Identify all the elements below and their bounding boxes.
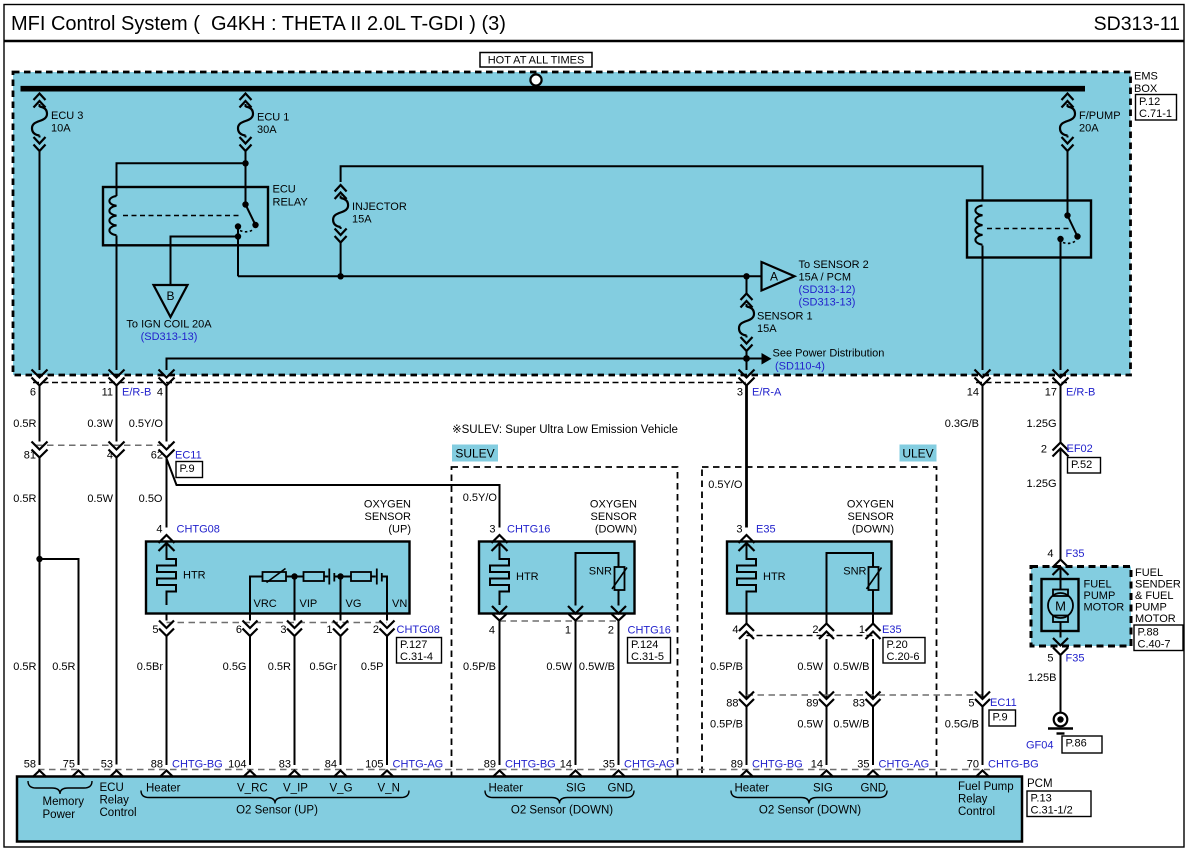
- injector feed rail: [341, 166, 983, 200]
- heater HTR UP: [157, 543, 206, 605]
- svg-text:M: M: [1055, 599, 1066, 614]
- svg-text:OXYGEN: OXYGEN: [364, 499, 411, 511]
- PCM row dashed line: [38, 769, 990, 771]
- V_N label: [378, 783, 400, 795]
- wire 0.5W ULEV lower: [797, 707, 826, 766]
- svg-text:1: 1: [565, 625, 571, 637]
- svg-text:Fuel Pump: Fuel Pump: [958, 781, 1014, 793]
- SIG label ULEV: [813, 783, 833, 795]
- connector CHTG16 pin 4: [489, 606, 507, 637]
- svg-text:14: 14: [967, 387, 979, 399]
- EF02 ref box P.52: [1068, 458, 1101, 474]
- svg-text:4: 4: [1047, 548, 1053, 560]
- fuse INJECTOR 15A: [333, 185, 407, 243]
- PCM ref box P.13: [1027, 791, 1091, 817]
- PCM pin 35: [857, 759, 929, 778]
- svg-text:14: 14: [560, 759, 572, 771]
- svg-text:VIP: VIP: [300, 598, 318, 610]
- svg-text:To IGN COIL 20A: To IGN COIL 20A: [126, 319, 212, 331]
- wire 0.5W/B SULEV: [579, 621, 619, 766]
- E/R-A label: [752, 387, 782, 399]
- wire fuel relay coil to pin 14: [982, 246, 984, 371]
- HOT AT ALL TIMES label: [480, 53, 592, 68]
- svg-text:P.9: P.9: [180, 463, 195, 475]
- svg-text:5: 5: [152, 624, 158, 636]
- svg-text:0.5Gr: 0.5Gr: [309, 661, 337, 673]
- svg-text:17: 17: [1045, 387, 1057, 399]
- GND label ULEV: [861, 783, 887, 795]
- junction memory power: [36, 556, 42, 562]
- ECU relay switch: [235, 201, 259, 239]
- PCM pin 89: [731, 759, 803, 778]
- wire 1.25B: [1028, 655, 1061, 713]
- svg-text:OXYGEN: OXYGEN: [590, 499, 637, 511]
- svg-text:P.12: P.12: [1139, 96, 1160, 108]
- svg-text:V_RC: V_RC: [237, 783, 268, 795]
- svg-text:81: 81: [24, 450, 36, 462]
- svg-text:C.20-6: C.20-6: [887, 651, 920, 663]
- wire junction to relay coil: [117, 163, 246, 196]
- svg-text:P.13: P.13: [1031, 793, 1052, 805]
- svg-text:3: 3: [489, 524, 495, 536]
- svg-text:30A: 30A: [257, 124, 277, 136]
- wire 0.5P/B ULEV lower: [710, 707, 747, 766]
- To SENSOR 2 text: [799, 259, 869, 284]
- svg-text:SENSOR: SENSOR: [365, 511, 412, 523]
- svg-text:35: 35: [857, 759, 869, 771]
- svg-text:0.5Br: 0.5Br: [137, 661, 164, 673]
- svg-text:0.5P/B: 0.5P/B: [463, 661, 496, 673]
- connector E35 pin 1: [859, 624, 881, 640]
- fuel relay switch: [1057, 212, 1080, 243]
- svg-text:SENSOR 1: SENSOR 1: [757, 311, 813, 323]
- wire pin6 inside EMS: [39, 151, 41, 370]
- svg-text:0.3G/B: 0.3G/B: [945, 418, 979, 430]
- GND label SULEV: [608, 783, 634, 795]
- O2 Sensor DOWN ULEV label: [759, 805, 861, 817]
- svg-text:Memory: Memory: [43, 796, 85, 808]
- EC11 row2 pin 5: [968, 692, 990, 710]
- wire motor out: [1060, 622, 1062, 638]
- svg-text:C.71-1: C.71-1: [1139, 108, 1172, 120]
- SNR element SULEV: [576, 553, 628, 606]
- EC11 row dashed line: [36, 444, 170, 446]
- junction ECU1/relay: [242, 160, 248, 166]
- connector E35 pin 2: [812, 624, 834, 640]
- labels VRC VIP VG VN: [254, 598, 408, 610]
- fuse ECU 1 30A: [238, 94, 289, 152]
- svg-text:C.31-1/2: C.31-1/2: [1031, 805, 1073, 817]
- V_IP label: [283, 783, 308, 795]
- svg-text:0.5W: 0.5W: [87, 493, 113, 505]
- wire 0.3W pin11: [87, 386, 116, 442]
- svg-text:INJECTOR: INJECTOR: [352, 201, 407, 213]
- connector A triangle: [762, 262, 795, 291]
- EC11 row2 dashed line: [747, 694, 983, 696]
- svg-text:(DOWN): (DOWN): [852, 524, 894, 536]
- wire 0.5R pin6: [13, 386, 39, 442]
- wire fpump fuse to relay: [1067, 151, 1069, 216]
- svg-text:PUMP: PUMP: [1135, 602, 1167, 614]
- svg-text:ECU: ECU: [100, 782, 124, 794]
- connector CHTG08 pin 2: [373, 614, 395, 637]
- svg-text:88: 88: [726, 698, 738, 710]
- svg-text:BOX: BOX: [1134, 83, 1158, 95]
- wire ULEV sig out: [826, 614, 828, 624]
- heater HTR ULEV: [737, 543, 786, 605]
- variable resistor VRC: [263, 569, 287, 583]
- wire into motor: [1060, 567, 1062, 590]
- svg-text:V_IP: V_IP: [283, 783, 308, 795]
- wire injector to rail: [340, 243, 342, 277]
- svg-text:0.5W: 0.5W: [546, 661, 572, 673]
- svg-text:Control: Control: [100, 807, 137, 819]
- svg-text:4: 4: [157, 387, 163, 399]
- branch 0.5Y/O to SULEV sensor: [167, 459, 500, 528]
- wire 0.5Br: [137, 636, 167, 765]
- svg-text:2: 2: [373, 624, 379, 636]
- svg-text:84: 84: [325, 759, 337, 771]
- svg-text:Heater: Heater: [146, 783, 181, 795]
- EMS exit connector dashes left: [33, 382, 746, 384]
- oxygen sensor SULEV box: [479, 542, 635, 614]
- PCM pin 53: [101, 759, 124, 778]
- svg-text:CHTG16: CHTG16: [628, 625, 671, 637]
- svg-text:P.127: P.127: [400, 639, 427, 651]
- svg-text:GND: GND: [608, 783, 634, 795]
- svg-text:0.5Y/O: 0.5Y/O: [463, 492, 498, 504]
- wire E/R-A heavy: [745, 386, 748, 528]
- PCM pin 58: [24, 759, 47, 778]
- svg-text:1.25G: 1.25G: [1027, 478, 1057, 490]
- svg-text:HTR: HTR: [763, 571, 786, 583]
- svg-text:SNR: SNR: [843, 566, 866, 578]
- svg-text:2: 2: [1041, 444, 1047, 456]
- svg-text:0.5Y/O: 0.5Y/O: [708, 479, 743, 491]
- PCM pin 83: [279, 759, 302, 778]
- CHTG16 ref box: [628, 638, 671, 664]
- svg-text:Control: Control: [958, 806, 995, 818]
- svg-text:SENSOR: SENSOR: [848, 511, 895, 523]
- wire 0.5G/B: [945, 707, 983, 766]
- svg-text:0.5G/B: 0.5G/B: [945, 719, 979, 731]
- ULEV tag: [900, 445, 937, 462]
- svg-text:104: 104: [228, 759, 246, 771]
- svg-text:(DOWN): (DOWN): [595, 524, 637, 536]
- svg-text:SIG: SIG: [566, 783, 586, 795]
- wire 0.5R pin58 label: [13, 661, 36, 673]
- PCM pin 14: [560, 759, 583, 778]
- svg-text:83: 83: [853, 698, 865, 710]
- svg-text:C.31-5: C.31-5: [631, 651, 664, 663]
- EMS exit pin 17: [1045, 370, 1069, 399]
- wire 0.5W ULEV upper: [797, 639, 826, 699]
- fuse SENSOR 1 15A: [739, 276, 813, 351]
- svg-text:E/R-B: E/R-B: [1066, 387, 1095, 399]
- wire 0.5W/B ULEV lower: [833, 707, 873, 766]
- EMS exit pin 11: [102, 370, 125, 399]
- PCM pin 89: [484, 759, 556, 778]
- CHTG08 ref box: [397, 638, 442, 664]
- brace memory power: [28, 781, 92, 794]
- svg-text:OXYGEN: OXYGEN: [847, 499, 894, 511]
- junction VG tap: [337, 573, 343, 613]
- connector B triangle: [154, 285, 188, 317]
- connector F35 pin 4: [1047, 548, 1084, 575]
- svg-text:0.5O: 0.5O: [139, 493, 163, 505]
- svg-text:(SD110-4): (SD110-4): [775, 361, 825, 373]
- E/R-B label left: [122, 387, 151, 399]
- svg-text:Heater: Heater: [489, 783, 524, 795]
- svg-text:P.20: P.20: [887, 639, 908, 651]
- svg-text:ECU 1: ECU 1: [257, 112, 289, 124]
- sensor rail to A: [238, 275, 762, 277]
- svg-text:CHTG08: CHTG08: [397, 624, 440, 636]
- EMS exit pin 3: [737, 370, 755, 399]
- wire relay out to B: [171, 237, 239, 286]
- wire junction to relay switch: [245, 163, 247, 204]
- connector CHTG16 pin 2: [608, 606, 626, 637]
- Heater label UP: [146, 783, 181, 795]
- svg-text:0.5P: 0.5P: [361, 661, 384, 673]
- EMS exit connector dashes right: [976, 382, 1067, 384]
- svg-text:O2 Sensor (DOWN): O2 Sensor (DOWN): [759, 805, 861, 817]
- ECU relay coil-switch dashed link: [123, 215, 240, 217]
- svg-text:0.5R: 0.5R: [268, 661, 291, 673]
- title separator line: [4, 40, 1184, 43]
- EC11 ref box row2: [989, 710, 1016, 726]
- EMS ref box P.12: [1136, 95, 1177, 121]
- svg-text:GND: GND: [861, 783, 887, 795]
- SULEV note: [452, 424, 678, 436]
- PCM box: [17, 777, 1022, 842]
- svg-text:CHTG-AG: CHTG-AG: [624, 759, 675, 771]
- wire 0.5Y/O pin4: [129, 386, 167, 442]
- FUEL PUMP MOTOR label: [1084, 579, 1125, 614]
- connector E35 pin 3: [736, 524, 775, 552]
- svg-text:EC11: EC11: [990, 697, 1017, 709]
- svg-text:0.5R: 0.5R: [52, 661, 75, 673]
- svg-text:3: 3: [280, 624, 286, 636]
- PCM pin 14: [811, 759, 834, 778]
- connector EF02 pin 2: [1041, 443, 1093, 457]
- PCM pin 70: [967, 759, 1039, 778]
- svg-text:CHTG-BG: CHTG-BG: [988, 759, 1039, 771]
- EC11 pin 81: [24, 442, 48, 462]
- svg-text:Relay: Relay: [100, 795, 130, 807]
- svg-text:75: 75: [63, 759, 75, 771]
- svg-text:70: 70: [967, 759, 979, 771]
- svg-text:15A / PCM: 15A / PCM: [799, 272, 852, 284]
- connector CHTG16 pin 1: [565, 606, 583, 637]
- svg-text:0.5W/B: 0.5W/B: [579, 661, 615, 673]
- svg-text:20A: 20A: [1079, 123, 1099, 135]
- svg-text:HOT AT ALL TIMES: HOT AT ALL TIMES: [488, 55, 585, 67]
- SNR element ULEV: [827, 553, 882, 614]
- svg-text:EF02: EF02: [1067, 443, 1093, 455]
- SIG label SULEV: [566, 783, 586, 795]
- sensor UP bottom dashes: [167, 622, 388, 624]
- EMS exit pin 14: [967, 370, 991, 399]
- svg-text:(SD313-13): (SD313-13): [141, 331, 198, 343]
- svg-text:F35: F35: [1066, 548, 1085, 560]
- GF04 ref box P.86: [1062, 736, 1102, 753]
- see power distribution arrow: [762, 353, 772, 365]
- wire VG-cap: [371, 576, 376, 578]
- svg-text:V_G: V_G: [330, 783, 353, 795]
- svg-text:1.25G: 1.25G: [1027, 418, 1057, 430]
- EMS exit pin 4: [157, 370, 175, 399]
- See Power Distribution text: [773, 348, 885, 360]
- svg-text:53: 53: [101, 759, 113, 771]
- svg-text:CHTG-AG: CHTG-AG: [879, 759, 930, 771]
- svg-text:SENDER: SENDER: [1135, 579, 1181, 591]
- wire 0.5O lower: [139, 458, 167, 528]
- wire cap to VG tap: [334, 576, 351, 578]
- svg-text:C.31-4: C.31-4: [400, 651, 433, 663]
- svg-text:MOTOR: MOTOR: [1084, 602, 1125, 614]
- wire 0.5P/B ULEV upper: [710, 639, 747, 699]
- EC11 label row2: [990, 697, 1017, 709]
- wire 0.5R: [268, 636, 295, 765]
- PCM pin 104: [228, 759, 257, 778]
- svg-text:(UP): (UP): [388, 524, 411, 536]
- brace O2 sensor DOWN SULEV: [485, 791, 634, 804]
- EC11 pin 62: [151, 442, 175, 462]
- SD313-12 ref: [799, 284, 856, 296]
- fuel sender ref box: [1134, 625, 1183, 651]
- svg-text:2: 2: [812, 624, 818, 636]
- power bus bar: [21, 86, 1086, 92]
- svg-text:58: 58: [24, 759, 36, 771]
- svg-text:FUEL: FUEL: [1135, 567, 1163, 579]
- EC11 pin 4: [107, 442, 125, 462]
- capacitor VN: [377, 569, 382, 585]
- junction injector/rail: [337, 273, 343, 279]
- svg-text:P.86: P.86: [1066, 738, 1087, 750]
- GF04 label: [1026, 740, 1054, 752]
- wire VIP-cap: [324, 576, 328, 578]
- svg-text:SD313-11: SD313-11: [1094, 13, 1180, 35]
- wire ECU1 to junction: [245, 151, 247, 163]
- wire relay out down: [237, 237, 239, 277]
- wire 0.5G: [223, 636, 250, 765]
- wire 0.5W lower: [87, 458, 116, 765]
- wire 0.5W SULEV: [546, 621, 575, 766]
- wire 0.5P/B SULEV: [463, 621, 500, 766]
- svg-text:ECU: ECU: [273, 184, 296, 196]
- connector E35 pin 4: [732, 624, 754, 640]
- EMS BOX label: [1134, 71, 1158, 96]
- connector CHTG16 pin 3: [489, 524, 550, 552]
- CHTG08 label bottom: [397, 624, 440, 636]
- svg-text:0.5W/B: 0.5W/B: [833, 661, 869, 673]
- svg-text:VG: VG: [346, 598, 362, 610]
- ULEV dashed box: [702, 467, 937, 826]
- connector CHTG08 pin 3: [280, 614, 302, 637]
- svg-text:SIG: SIG: [813, 783, 833, 795]
- fuel relay coil-switch dashed link: [987, 228, 1070, 230]
- EC11 row2 pin 83: [853, 692, 881, 710]
- svg-text:V_N: V_N: [378, 783, 400, 795]
- EMS exit pin 6: [30, 370, 48, 399]
- connector CHTG08 pin 5: [152, 614, 174, 637]
- E35 ref box: [883, 638, 925, 664]
- Memory Power label: [43, 796, 85, 821]
- svg-text:83: 83: [279, 759, 291, 771]
- svg-text:O2 Sensor (DOWN): O2 Sensor (DOWN): [511, 805, 613, 817]
- svg-text:89: 89: [806, 698, 818, 710]
- title text: [11, 13, 506, 35]
- svg-text:See Power Distribution: See Power Distribution: [773, 348, 885, 360]
- ground GF04: [1048, 713, 1073, 734]
- wire 0.5P: [361, 636, 387, 765]
- PCM label: [1027, 778, 1053, 790]
- fuse ECU 3 10A: [32, 94, 83, 152]
- SULEV 0.5Y/O label: [463, 492, 498, 504]
- SULEV tag: [452, 445, 498, 462]
- PCM pin 88: [151, 759, 223, 778]
- svg-text:FUEL: FUEL: [1084, 579, 1112, 591]
- wire VRC-VIP: [286, 576, 304, 578]
- svg-text:CHTG16: CHTG16: [507, 524, 550, 536]
- PCM pin 75: [63, 759, 86, 778]
- wire ULEV gnd out: [872, 614, 874, 624]
- svg-text:4: 4: [156, 524, 162, 536]
- memory power branch: [40, 559, 79, 765]
- svg-text:5: 5: [968, 698, 974, 710]
- svg-text:Heater: Heater: [735, 783, 770, 795]
- Heater label ULEV: [735, 783, 770, 795]
- svg-text:P.124: P.124: [631, 639, 658, 651]
- svg-text:C.40-7: C.40-7: [1138, 639, 1171, 651]
- SD313-13 ref: [799, 297, 856, 309]
- junction power distribution: [743, 355, 762, 362]
- svg-text:4: 4: [489, 625, 495, 637]
- svg-text:0.5R: 0.5R: [13, 418, 36, 430]
- svg-text:CHTG08: CHTG08: [177, 524, 220, 536]
- svg-text:PUMP: PUMP: [1084, 590, 1116, 602]
- svg-text:E/R-B: E/R-B: [122, 387, 151, 399]
- svg-text:62: 62: [151, 450, 163, 462]
- svg-text:15A: 15A: [352, 214, 372, 226]
- svg-text:P.52: P.52: [1071, 459, 1092, 471]
- svg-text:※SULEV: Super Ultra Low Emissi: ※SULEV: Super Ultra Low Emission Vehicle: [452, 424, 678, 436]
- svg-text:0.5W: 0.5W: [797, 661, 823, 673]
- PCM pin 105: [365, 759, 443, 778]
- connector F35 pin 5: [1047, 638, 1084, 665]
- svg-text:VN: VN: [392, 598, 407, 610]
- wire 0.5Gr: [309, 636, 340, 765]
- Heater label SULEV: [489, 783, 524, 795]
- svg-text:P.88: P.88: [1138, 627, 1159, 639]
- oxygen sensor DOWN ULEV title: [847, 499, 894, 536]
- svg-text:6: 6: [236, 624, 242, 636]
- svg-text:3: 3: [737, 387, 743, 399]
- svg-text:F/PUMP: F/PUMP: [1079, 110, 1121, 122]
- resistor VG: [351, 572, 371, 581]
- svg-text:0.5R: 0.5R: [13, 493, 36, 505]
- svg-text:0.5G: 0.5G: [223, 661, 247, 673]
- fuel tank dashed box: [1031, 567, 1131, 647]
- svg-text:SENSOR: SENSOR: [591, 511, 638, 523]
- EC11 label: [175, 450, 202, 462]
- svg-text:To SENSOR 2: To SENSOR 2: [799, 259, 869, 271]
- oxygen sensor UP box: [146, 542, 410, 614]
- fuel pump relay coil: [975, 206, 982, 245]
- fuel pump motor inner box: [1042, 579, 1079, 631]
- ULEV 0.5Y/O label: [708, 479, 743, 491]
